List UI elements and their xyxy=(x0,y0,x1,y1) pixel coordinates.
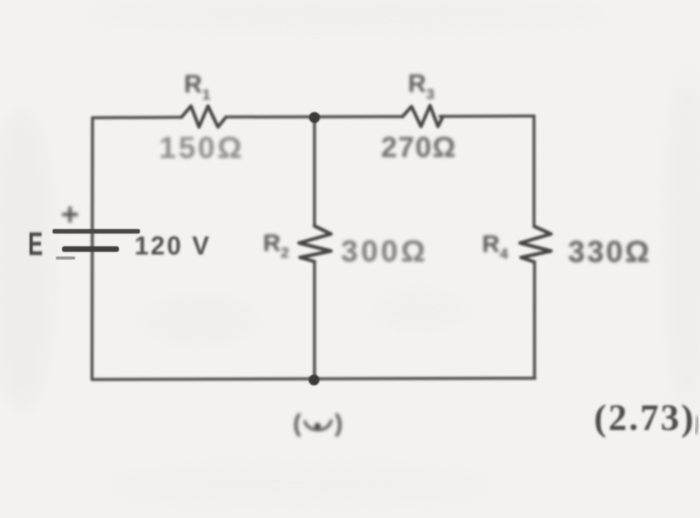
resistor R4 (330 ohm) vertical zigzag xyxy=(520,227,551,263)
svg-text:150Ω: 150Ω xyxy=(159,131,244,165)
wire: left side through battery xyxy=(91,118,95,380)
resistor R1 (150 ohm) zigzag xyxy=(182,106,227,127)
battery long (+) plate xyxy=(53,229,141,234)
battery E plates xyxy=(53,207,141,260)
wire: middle branch lower xyxy=(313,262,316,381)
wire: right side down to R4 xyxy=(533,116,536,227)
edge mark after caption xyxy=(696,416,698,434)
resistor R2 (300 ohm) vertical zigzag xyxy=(299,226,331,262)
svg-text:(: ( xyxy=(293,410,302,438)
resistor R3 (270 ohm) zigzag xyxy=(403,106,444,127)
wire: top-middle segment xyxy=(226,115,403,118)
wire: right side below R4 to bottom xyxy=(533,262,536,378)
battery short (-) plate xyxy=(62,246,119,252)
plus sign xyxy=(62,207,78,223)
wire: middle branch upper xyxy=(313,117,316,226)
svg-text:E: E xyxy=(28,226,43,262)
svg-text:270Ω: 270Ω xyxy=(381,132,457,164)
svg-text:300Ω: 300Ω xyxy=(341,235,428,269)
svg-text:(2.73): (2.73) xyxy=(594,398,695,439)
minus dash xyxy=(56,257,75,260)
wire: bottom xyxy=(93,378,536,379)
caption (b) arabic xyxy=(293,410,343,438)
circuit wiring xyxy=(92,106,551,381)
wire: top-left segment xyxy=(93,116,182,120)
svg-text:120 V: 120 V xyxy=(135,233,212,261)
svg-text:): ) xyxy=(335,410,343,438)
wire: top-right segment xyxy=(440,115,534,118)
node A: top junction dot xyxy=(309,112,320,123)
svg-text:330Ω: 330Ω xyxy=(568,235,651,269)
arabic ba bowl xyxy=(305,420,332,430)
node B: bottom junction dot xyxy=(309,375,320,386)
